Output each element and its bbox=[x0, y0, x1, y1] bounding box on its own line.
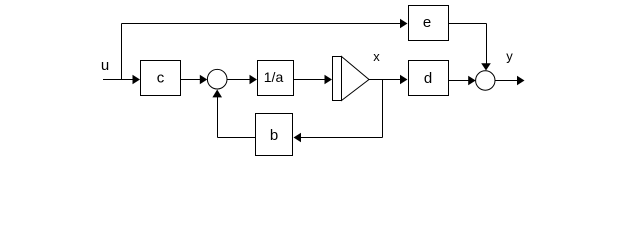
block b bbox=[256, 114, 293, 156]
arrow into summing junction S2 from left bbox=[468, 76, 476, 86]
wire: feedback horizontal to block b bbox=[301, 137, 383, 139]
wire: branch vertical up from u line bbox=[121, 24, 123, 80]
arrow up into summing junction S1 bottom bbox=[212, 90, 222, 98]
arrow into block 1/a bbox=[250, 75, 258, 85]
wire: top horizontal to block e bbox=[122, 23, 401, 25]
integrator input rectangle bbox=[333, 57, 342, 101]
svg-text:u: u bbox=[101, 57, 109, 74]
wire: 1/a output bbox=[294, 79, 325, 81]
svg-text:e: e bbox=[423, 14, 431, 31]
svg-text:x: x bbox=[373, 49, 380, 64]
wire: integrator output to block d bbox=[369, 79, 401, 81]
integrator triangle bbox=[342, 57, 370, 101]
block c bbox=[141, 61, 181, 96]
wire: b output horizontal bbox=[218, 137, 256, 139]
block e bbox=[409, 6, 449, 41]
wire: d output bbox=[448, 80, 469, 82]
wire: S1 output bbox=[227, 79, 250, 81]
svg-text:d: d bbox=[424, 70, 432, 87]
arrow into block c bbox=[133, 75, 141, 85]
wire: b output vertical up to S1 bbox=[217, 97, 219, 138]
arrow into block e bbox=[400, 19, 408, 29]
arrow into block d bbox=[400, 75, 408, 85]
block d bbox=[409, 61, 449, 96]
svg-text:1/a: 1/a bbox=[264, 69, 284, 85]
output arrow y bbox=[517, 76, 525, 86]
arrow into summing junction S1 bbox=[200, 75, 208, 85]
arrow into block b bbox=[294, 133, 302, 143]
summing junction S2 bbox=[476, 71, 495, 90]
wire: x branch vertical down bbox=[382, 80, 384, 138]
wire: e output horizontal bbox=[448, 23, 487, 25]
svg-text:c: c bbox=[157, 70, 165, 87]
block 1/a bbox=[258, 61, 294, 96]
arrow into integrator bbox=[325, 75, 333, 85]
svg-text:y: y bbox=[506, 49, 513, 64]
wire: S2 output bbox=[495, 80, 517, 82]
wire: e output vertical down bbox=[486, 24, 488, 64]
arrow down into summing junction S2 bbox=[481, 63, 491, 70]
wire: u input horizontal bbox=[103, 79, 134, 81]
svg-text:b: b bbox=[270, 127, 278, 144]
summing junction S1 bbox=[207, 69, 227, 89]
wire: c output bbox=[181, 79, 201, 81]
